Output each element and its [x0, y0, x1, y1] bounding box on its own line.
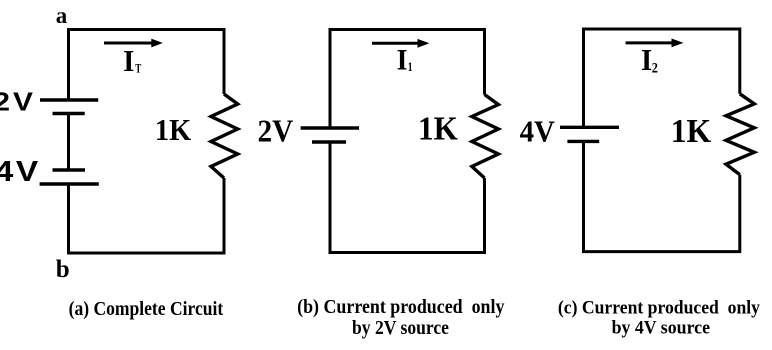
- resistor R1 1K (circuit a): [211, 94, 238, 178]
- battery V1 2V (circuit a): [40, 100, 98, 114]
- wire: circuit (a) bottom side from battery V2 via node b to resistor: [69, 178, 225, 253]
- wire: circuit (c) bottom side: [584, 141, 740, 251]
- svg-text:I: I: [123, 44, 134, 78]
- svg-text:I: I: [641, 43, 652, 77]
- wire: circuit (b) bottom side: [330, 142, 485, 253]
- svg-text:1: 1: [408, 61, 413, 75]
- current arrow I1 (circuit b): [372, 39, 429, 48]
- svg-text:a: a: [56, 3, 68, 28]
- caption (b) Current produced only by 2V source: [297, 296, 505, 339]
- label I1: [397, 44, 413, 77]
- svg-text:(b) Current produced only: (b) Current produced only: [297, 296, 505, 318]
- label I2: [641, 43, 658, 77]
- svg-text:by 4V source: by 4V source: [612, 317, 710, 339]
- svg-text:2V: 2V: [258, 114, 294, 149]
- svg-text:I: I: [397, 44, 408, 77]
- wire: circuit (a) between battery V1 and V2: [67, 114, 70, 171]
- label IT: [123, 44, 142, 78]
- svg-text:1K: 1K: [418, 109, 458, 146]
- svg-text:2: 2: [652, 60, 658, 76]
- resistor R2 1K (circuit b): [472, 95, 499, 179]
- current arrow I2 (circuit c): [626, 39, 684, 48]
- svg-text:by 2V source: by 2V source: [352, 317, 449, 339]
- svg-text:2V: 2V: [0, 87, 36, 116]
- current arrow IT (circuit a): [104, 39, 163, 48]
- battery V2 4V (circuit a): [40, 170, 99, 184]
- svg-text:4V: 4V: [520, 114, 556, 148]
- wire: circuit (a) top side from node a to resistor: [69, 30, 225, 101]
- svg-text:1K: 1K: [155, 114, 191, 147]
- wire: circuit (b) top side: [330, 30, 485, 129]
- svg-text:T: T: [135, 62, 142, 76]
- resistor R3 1K (circuit c): [726, 94, 754, 175]
- svg-text:4V: 4V: [0, 155, 41, 187]
- battery V4 4V (circuit c): [560, 127, 619, 141]
- svg-text:1K: 1K: [671, 113, 712, 150]
- svg-text:b: b: [56, 256, 70, 283]
- wire: circuit (c) top side: [584, 29, 740, 127]
- svg-text:(c) Current produced only: (c) Current produced only: [558, 297, 761, 319]
- caption (c) Current produced only by 4V source: [558, 297, 761, 339]
- svg-text:(a) Complete Circuit: (a) Complete Circuit: [69, 298, 224, 320]
- battery V3 2V (circuit b): [301, 128, 359, 142]
